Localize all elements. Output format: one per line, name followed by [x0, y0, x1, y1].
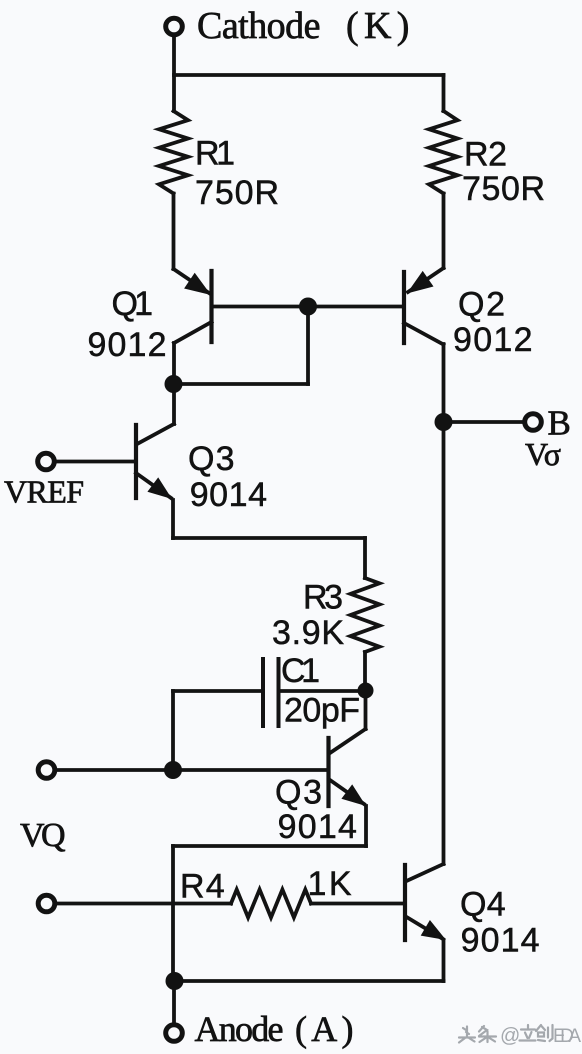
svg-text:@: @: [500, 1025, 520, 1047]
svg-text:VQ: VQ: [20, 817, 66, 854]
svg-text:9012: 9012: [88, 326, 167, 364]
svg-text:Q2: Q2: [458, 286, 505, 324]
svg-text:R3: R3: [303, 579, 343, 617]
svg-text:9014: 9014: [190, 476, 267, 514]
svg-text:R1: R1: [195, 135, 235, 173]
svg-text:750R: 750R: [462, 170, 545, 208]
svg-text:EDA: EDA: [553, 1026, 581, 1047]
svg-text:R4: R4: [180, 868, 225, 906]
svg-text:Q3: Q3: [275, 774, 322, 812]
svg-text:Vσ: Vσ: [525, 436, 561, 472]
svg-text:Q4: Q4: [460, 886, 506, 924]
svg-text:1K: 1K: [308, 865, 352, 903]
svg-text:Anode: Anode: [195, 1009, 284, 1049]
svg-text:9014: 9014: [278, 808, 357, 846]
svg-text:Q1: Q1: [112, 285, 154, 323]
svg-text:Q3: Q3: [188, 440, 235, 478]
svg-text:VREF: VREF: [4, 474, 84, 510]
svg-text:750R: 750R: [195, 174, 279, 212]
svg-text:3.9K: 3.9K: [272, 614, 344, 652]
svg-text:Cathode: Cathode: [197, 5, 321, 47]
svg-text:9014: 9014: [461, 922, 540, 960]
svg-text:C1: C1: [281, 652, 320, 690]
svg-text:(A): (A): [295, 1009, 354, 1049]
svg-text:(K): (K): [346, 5, 409, 47]
svg-text:9012: 9012: [453, 321, 533, 359]
svg-text:20pF: 20pF: [284, 692, 360, 730]
svg-text:R2: R2: [464, 136, 507, 174]
